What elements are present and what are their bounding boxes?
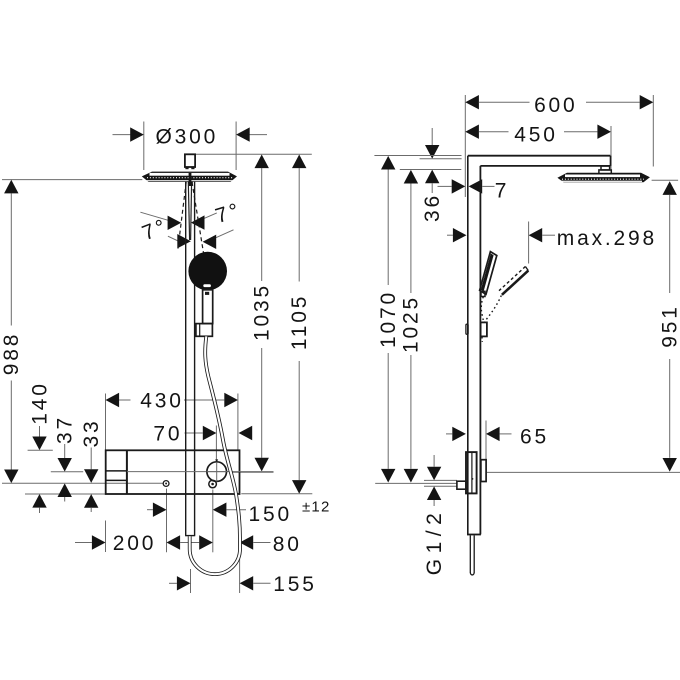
outlet drop pipe side: [469, 535, 471, 572]
svg-text:max.298: max.298: [557, 227, 657, 250]
dotted hoses side: [481, 297, 483, 322]
svg-text:450: 450: [514, 124, 557, 147]
svg-text:1025: 1025: [400, 295, 423, 353]
svg-text:80: 80: [273, 533, 302, 556]
holder side: [481, 322, 487, 336]
dim max.298: [447, 234, 453, 236]
mixer body front: [106, 450, 240, 494]
dim 430: [105, 394, 107, 451]
svg-text:155: 155: [273, 573, 316, 596]
svg-text:7°: 7°: [213, 198, 244, 228]
arm side: [468, 155, 611, 157]
hand shower (front): [188, 252, 227, 291]
svg-text:1070: 1070: [377, 290, 400, 348]
dim 1035: [261, 168, 263, 281]
mixer side: [466, 452, 477, 493]
dim 1070: [381, 156, 395, 170]
svg-text:70: 70: [153, 423, 182, 446]
svg-text:37: 37: [54, 415, 77, 444]
svg-text:600: 600: [534, 94, 577, 117]
svg-text:988: 988: [0, 332, 23, 375]
small select knob: [209, 480, 217, 488]
dim Ø300 line and arrows: [113, 134, 131, 136]
dim 7: [438, 185, 452, 187]
hand shower side solid: [480, 252, 497, 295]
dim 1105: [298, 168, 300, 281]
dim 200 / 80 line: [105, 521, 107, 553]
svg-text:951: 951: [659, 304, 680, 347]
spray cone dashed lines: [178, 182, 186, 249]
overhead plate side: [557, 173, 650, 183]
svg-text:36: 36: [421, 193, 444, 222]
dim 988: [10, 193, 12, 325]
reference line top (head level): [196, 153, 312, 155]
bottom reference line side: [375, 482, 457, 484]
ticks head side: [374, 155, 461, 157]
head connection block: [185, 154, 195, 167]
svg-text:1035: 1035: [251, 283, 274, 341]
hand shower side swung (dashed): [502, 271, 528, 295]
reference line 988 top (plate bottom level): [2, 179, 142, 181]
dim G1/2: [424, 479, 457, 481]
column pipe front: [185, 181, 187, 536]
screw reference line: [2, 482, 163, 484]
svg-text:140: 140: [28, 381, 51, 424]
wall column side: [467, 156, 469, 535]
fixing screw: [163, 481, 169, 487]
angle 7deg upper pair: [140, 212, 169, 221]
svg-text:7: 7: [495, 179, 509, 202]
svg-text:200: 200: [113, 532, 156, 555]
dim 150 +/-12: [147, 509, 153, 511]
overhead shower plate (front): [142, 172, 237, 182]
svg-text:33: 33: [80, 419, 103, 448]
dim 70: [215, 426, 217, 462]
thermostat knob: [207, 462, 227, 482]
angle 7deg lower pair: [168, 236, 178, 241]
shower hose (front): [190, 336, 240, 574]
svg-text:65: 65: [520, 425, 549, 448]
svg-text:430: 430: [140, 390, 183, 413]
svg-text:7°: 7°: [139, 214, 171, 245]
dim 1025: [404, 170, 418, 184]
svg-text:Ø300: Ø300: [156, 126, 219, 149]
svg-text:1105: 1105: [288, 294, 311, 350]
svg-text:G1/2: G1/2: [423, 508, 446, 576]
dim Ø300 extension lines: [143, 122, 145, 171]
svg-text:150: 150: [249, 503, 292, 526]
dim 600: [464, 95, 466, 197]
dim 65: [446, 433, 452, 435]
dim 155: [190, 569, 192, 593]
dim 951: [652, 179, 679, 181]
dim 36: [431, 128, 433, 145]
dim 450: [465, 125, 479, 139]
svg-text:±12: ±12: [302, 499, 331, 516]
